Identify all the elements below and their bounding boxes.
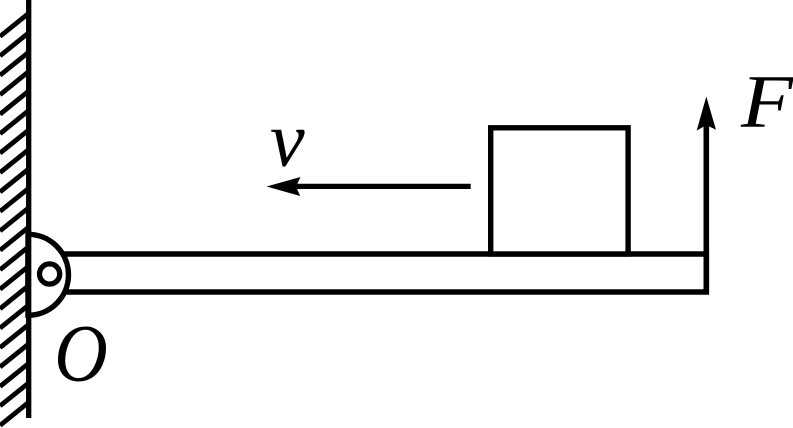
svg-text:F: F bbox=[740, 60, 793, 143]
svg-text:O: O bbox=[54, 308, 107, 399]
svg-text:v: v bbox=[270, 96, 305, 183]
